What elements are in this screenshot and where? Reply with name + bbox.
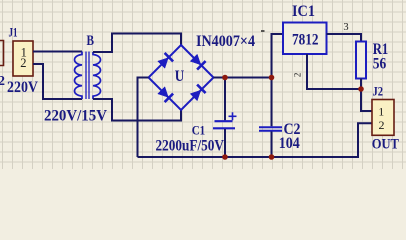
- IC1 7812 regulator box: [283, 23, 327, 55]
- wire R1 bottom to junction: [360, 79, 362, 90]
- svg-text:U: U: [175, 68, 185, 85]
- C1 plus sign: [229, 112, 237, 120]
- junction dot at R1 bottom: [358, 86, 364, 92]
- wire J1 pin1 to transformer primary top: [33, 51, 82, 53]
- connector J1: [13, 41, 33, 76]
- svg-text:3: 3: [343, 22, 348, 33]
- connector J2: [372, 100, 394, 136]
- wire bridge plus (right vertex) to VIN node: [214, 77, 272, 79]
- wire J1 pin2 to transformer primary bottom: [33, 64, 82, 99]
- cut-off connector at left edge: [0, 41, 4, 66]
- capacitor C1 (polarized): [213, 78, 235, 158]
- svg-text:7812: 7812: [292, 31, 319, 48]
- svg-text:2: 2: [0, 74, 5, 89]
- bridge rectifier U outline: [149, 45, 214, 110]
- junction dot at C2 bottom on ground rail: [269, 154, 275, 160]
- svg-text:2: 2: [292, 73, 302, 78]
- resistor R1: [356, 42, 366, 79]
- svg-text:J2: J2: [373, 84, 384, 99]
- wire VIN node up to IC1 input pin 1: [272, 34, 284, 78]
- IC1 pin 1 number (tiny): [261, 30, 265, 32]
- svg-text:J1: J1: [9, 26, 18, 40]
- svg-text:2200uF/50V: 2200uF/50V: [156, 138, 225, 155]
- svg-text:56: 56: [373, 56, 387, 73]
- svg-text:1: 1: [378, 105, 384, 119]
- svg-text:C1: C1: [192, 122, 206, 137]
- svg-text:220V: 220V: [7, 79, 38, 96]
- wire secondary top to bridge AC top: [93, 34, 181, 53]
- svg-text:B: B: [87, 33, 95, 49]
- transformer B primary winding: [75, 52, 83, 100]
- wire secondary bottom to bridge AC bottom: [93, 99, 181, 121]
- svg-text:104: 104: [279, 135, 300, 152]
- wire bridge minus (left vertex) down to ground rail: [138, 78, 149, 158]
- transformer B secondary winding: [93, 52, 101, 99]
- ground rail wire: [138, 123, 373, 157]
- svg-text:220V/15V: 220V/15V: [44, 108, 107, 125]
- diode D4 bottom-right: [190, 85, 205, 101]
- wire IC1 gnd pin 2 to R1 bottom node: [307, 54, 361, 89]
- capacitor C2: [259, 78, 282, 158]
- diode D1 top-left: [158, 53, 173, 68]
- wire junction down to J2 pin 1: [361, 89, 372, 111]
- junction dot VIN at C1 top: [222, 75, 228, 81]
- svg-text:IN4007×4: IN4007×4: [196, 33, 255, 50]
- junction dot at C1 bottom on ground rail: [222, 154, 228, 160]
- transformer B core: [85, 52, 87, 100]
- svg-text:IC1: IC1: [292, 3, 315, 20]
- junction dot VIN at C2 top: [269, 75, 275, 81]
- svg-text:2: 2: [379, 118, 385, 132]
- diode D3 bottom-left: [158, 87, 173, 102]
- svg-text:OUT: OUT: [372, 137, 399, 153]
- svg-text:2: 2: [20, 56, 26, 70]
- wire IC1 output pin 3 to R1 top: [327, 34, 362, 42]
- diode D2 top-right: [190, 54, 205, 69]
